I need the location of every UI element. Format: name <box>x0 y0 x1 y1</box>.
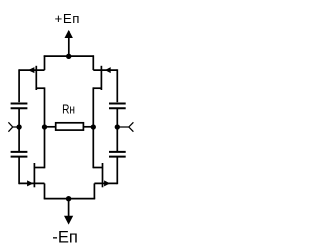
wire right node vertical <box>92 87 94 168</box>
right input chevron <box>117 122 133 131</box>
transistor VT1 emitter arrow <box>28 67 34 73</box>
transistor VT2 collector lead <box>34 167 44 169</box>
-Ep supply arrowhead <box>64 216 73 225</box>
transistor VT4 collector lead <box>93 167 102 169</box>
junction dot right input <box>115 124 120 129</box>
capacitor C3 bottom plate <box>109 107 126 109</box>
wire right rail corner vertical <box>92 55 94 70</box>
svg-text:Rн: Rн <box>62 102 75 116</box>
transistor VT4 base bar <box>102 163 104 187</box>
transistor VT2 base bar <box>33 163 35 187</box>
svg-text:-Eп: -Eп <box>52 228 78 247</box>
wire -Ep vertical lead <box>68 199 70 220</box>
transistor VT3 emitter arrow <box>105 67 111 73</box>
transistor VT3 base bar <box>100 66 102 90</box>
resistor Rn lead left <box>45 126 56 128</box>
bottom rail wire <box>44 198 95 200</box>
wire left column upper <box>18 69 20 102</box>
top rail wire <box>44 55 94 57</box>
wire VT2 emitter corner vertical <box>44 183 46 198</box>
transistor VT4 emitter arrow <box>104 180 110 186</box>
wire right column upper <box>116 69 118 102</box>
capacitor C1 top plate <box>11 103 28 105</box>
transistor VT1 collector lead <box>36 87 44 89</box>
capacitor C4 bottom plate <box>109 156 126 158</box>
junction dot bottom rail <box>66 196 71 201</box>
transistor VT4 emitter line <box>94 182 117 184</box>
svg-text:+Eп: +Eп <box>55 11 80 26</box>
capacitor C2 bottom plate <box>11 156 28 158</box>
transistor VT1 base bar <box>35 66 37 90</box>
junction dot right node <box>91 124 96 129</box>
wire left column middle <box>18 109 20 151</box>
resistor Rn body <box>56 123 84 130</box>
left input chevron <box>8 122 19 131</box>
junction dot left input <box>16 124 21 129</box>
wire +Ep vertical lead <box>68 31 70 56</box>
transistor VT2 emitter arrow <box>27 180 33 186</box>
wire left rail corner vertical <box>44 55 46 70</box>
wire left column lower <box>18 157 20 184</box>
wire right column lower <box>116 157 118 184</box>
capacitor C2 top plate <box>11 151 28 153</box>
capacitor C3 top plate <box>109 103 126 105</box>
transistor VT2 emitter line <box>19 182 44 184</box>
capacitor C4 top plate <box>109 151 126 153</box>
transistor VT3 emitter line <box>93 69 117 71</box>
capacitor C1 bottom plate <box>11 107 28 109</box>
transistor VT3 collector lead <box>93 87 101 89</box>
wire right column middle <box>116 109 118 151</box>
+Ep supply arrowhead <box>65 30 73 38</box>
junction dot top rail <box>66 54 71 59</box>
junction dot left node <box>42 124 47 129</box>
transistor VT1 emitter line <box>19 69 44 71</box>
wire VT4 emitter corner vertical <box>93 183 95 198</box>
resistor Rn lead right <box>84 126 94 128</box>
wire left node vertical <box>44 87 46 168</box>
